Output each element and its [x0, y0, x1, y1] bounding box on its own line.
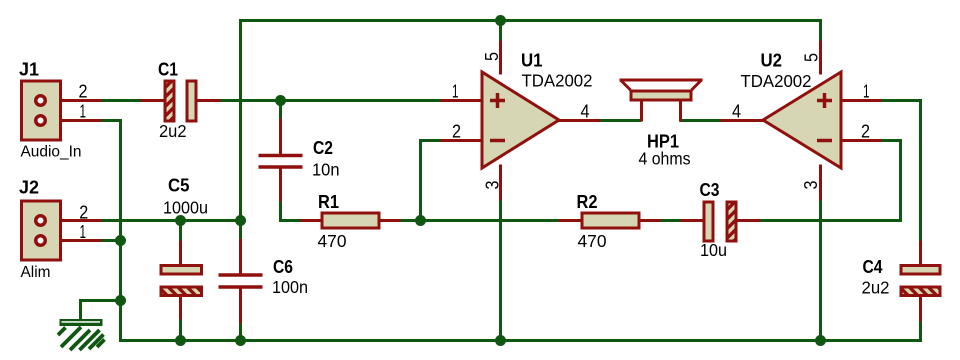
pin stub U1 pin5: [499, 41, 502, 75]
svg-text:100n: 100n: [272, 277, 308, 297]
wire U1 out to HP1: [600, 119, 642, 122]
connector J2: [22, 201, 61, 260]
junction J2 pin1 at ground vertical: [115, 235, 126, 246]
junction feedback node R1/R2/U1 pin2: [415, 215, 426, 226]
junction U1 pin3 at ground rail: [495, 335, 506, 346]
pin stub J1-2: [47, 99, 102, 102]
capacitor C5: [161, 266, 202, 296]
junction C5 bottom at ground rail: [175, 335, 186, 346]
op-amp U2: [763, 72, 841, 168]
svg-text:1: 1: [863, 82, 870, 102]
pin stub C1 right: [197, 99, 221, 102]
svg-text:J1: J1: [19, 60, 39, 80]
svg-text:C6: C6: [273, 257, 293, 277]
junction ground symbol branch: [115, 295, 126, 306]
wire U2 pin5 net: [819, 19, 822, 41]
pin stub U1 pin4 out: [558, 119, 601, 122]
capacitor C6: [219, 275, 263, 287]
pin stub C4 top: [919, 241, 922, 266]
pin stub C1 left: [141, 99, 165, 102]
pin stub C2 top: [279, 119, 282, 155]
wire audio in net J1 to C1: [101, 99, 142, 102]
svg-text:2: 2: [452, 122, 461, 142]
wire U1 pin5 net: [499, 19, 502, 41]
svg-text:2u2: 2u2: [159, 121, 187, 141]
svg-text:C1: C1: [158, 60, 178, 80]
svg-text:TDA2002: TDA2002: [522, 71, 593, 91]
connector J1: [22, 81, 61, 140]
svg-text:C4: C4: [863, 257, 883, 277]
pin stub U1 pin1: [441, 99, 483, 102]
svg-text:4: 4: [732, 102, 741, 122]
svg-text:U1: U1: [521, 51, 543, 71]
svg-text:J2: J2: [19, 178, 39, 198]
svg-text:Audio_In: Audio_In: [21, 144, 82, 161]
pin stub U1 pin3: [499, 165, 502, 201]
wire U1 pin3 to ground: [499, 200, 502, 341]
wire R1 to R2 feedback node: [400, 219, 559, 222]
svg-text:1: 1: [80, 102, 87, 122]
capacitor C4: [901, 266, 940, 296]
pin stub R1 left: [301, 219, 322, 222]
pin stub C5 top: [179, 241, 182, 266]
pin stub C6 top: [239, 239, 242, 274]
wire ground net J1 pin1, left vertical and bottom rail: [101, 121, 921, 341]
svg-text:1000u: 1000u: [163, 198, 208, 218]
wire C6 top: [239, 221, 242, 240]
svg-text:4: 4: [581, 102, 590, 122]
pin stub C3 left: [681, 219, 704, 222]
pin stub J2-1: [47, 239, 102, 242]
svg-text:TDA2002: TDA2002: [741, 71, 812, 91]
wire J2 pin1 to junction: [102, 239, 121, 242]
wire +V horizontal J2 to vertical: [101, 219, 241, 222]
pin stub U2 pin2: [842, 139, 882, 142]
junction C2 top at input net: [275, 95, 286, 106]
svg-text:5: 5: [482, 52, 502, 61]
svg-text:10n: 10n: [312, 160, 340, 180]
wire +V top rail and x=240 vertical: [241, 21, 821, 221]
resistor R2: [582, 213, 639, 228]
pin stub C4 bottom: [919, 297, 922, 322]
svg-text:2: 2: [861, 122, 870, 142]
wire C2 bottom to R1: [281, 201, 302, 221]
svg-text:1: 1: [80, 222, 87, 242]
svg-text:470: 470: [578, 231, 607, 251]
pin stub U1 pin2: [441, 139, 483, 142]
pin stub C5 bottom: [179, 297, 182, 320]
svg-text:1: 1: [452, 82, 459, 102]
svg-text:C5: C5: [168, 176, 190, 196]
svg-text:R2: R2: [577, 192, 598, 212]
pin stub U2 pin5: [819, 41, 822, 75]
ground symbol: [58, 319, 105, 350]
junction C5 top at +V: [175, 215, 186, 226]
capacitor C3: [704, 202, 736, 241]
svg-text:C3: C3: [700, 180, 720, 200]
wire ground symbol branch: [81, 301, 121, 321]
wire HP1 to U2 out: [680, 119, 722, 122]
junction +V vertical: [235, 215, 246, 226]
wire U2 pin1 to C4: [881, 101, 921, 242]
svg-text:2: 2: [79, 203, 88, 223]
svg-text:R1: R1: [318, 192, 339, 212]
wire C5 top: [179, 221, 182, 242]
svg-text:4 ohms: 4 ohms: [639, 149, 691, 169]
wire C3 to U2 pin2: [760, 141, 901, 221]
pin stub C2 bottom: [279, 168, 282, 202]
wire C6 bottom: [239, 323, 242, 341]
wire feedback to U1 pin2: [421, 141, 442, 221]
wire R2 to C3: [660, 219, 682, 222]
capacitor C1: [165, 81, 196, 121]
resistor R1: [322, 213, 379, 228]
pin stub U2 pin4 out: [721, 119, 764, 122]
pin stub J2-2: [47, 219, 102, 222]
svg-text:10u: 10u: [700, 240, 727, 260]
speaker HP1: [620, 80, 703, 122]
svg-text:470: 470: [318, 231, 347, 251]
wire U2 pin3 to ground: [819, 200, 822, 341]
wire C1 to U1 pin1: [220, 99, 442, 102]
svg-text:3: 3: [483, 181, 503, 190]
junction C6 bottom at ground rail: [235, 335, 246, 346]
svg-text:3: 3: [801, 181, 821, 190]
wire C5 bottom: [179, 319, 182, 341]
pin stub J1-1: [47, 119, 102, 122]
svg-text:C2: C2: [313, 138, 333, 158]
pin stub U2 pin3: [819, 165, 822, 201]
capacitor C2: [259, 156, 303, 168]
svg-text:U2: U2: [761, 51, 783, 71]
svg-text:5: 5: [802, 53, 822, 62]
pin stub C3 right: [737, 219, 761, 222]
pin stub R2 left: [559, 219, 582, 222]
pin stub C6 bottom: [239, 289, 242, 324]
svg-text:2: 2: [79, 82, 88, 102]
wire C2 top drop: [279, 101, 282, 120]
pin stub U2 pin1: [842, 99, 882, 102]
svg-text:2u2: 2u2: [862, 278, 890, 298]
junction U1 pin5 at +V rail: [495, 15, 506, 26]
op-amp U1: [482, 72, 559, 168]
svg-text:Alim: Alim: [21, 264, 51, 281]
pin stub R2 right: [640, 219, 661, 222]
junction U2 pin3 at ground rail: [815, 335, 826, 346]
pin stub R1 right: [380, 219, 401, 222]
